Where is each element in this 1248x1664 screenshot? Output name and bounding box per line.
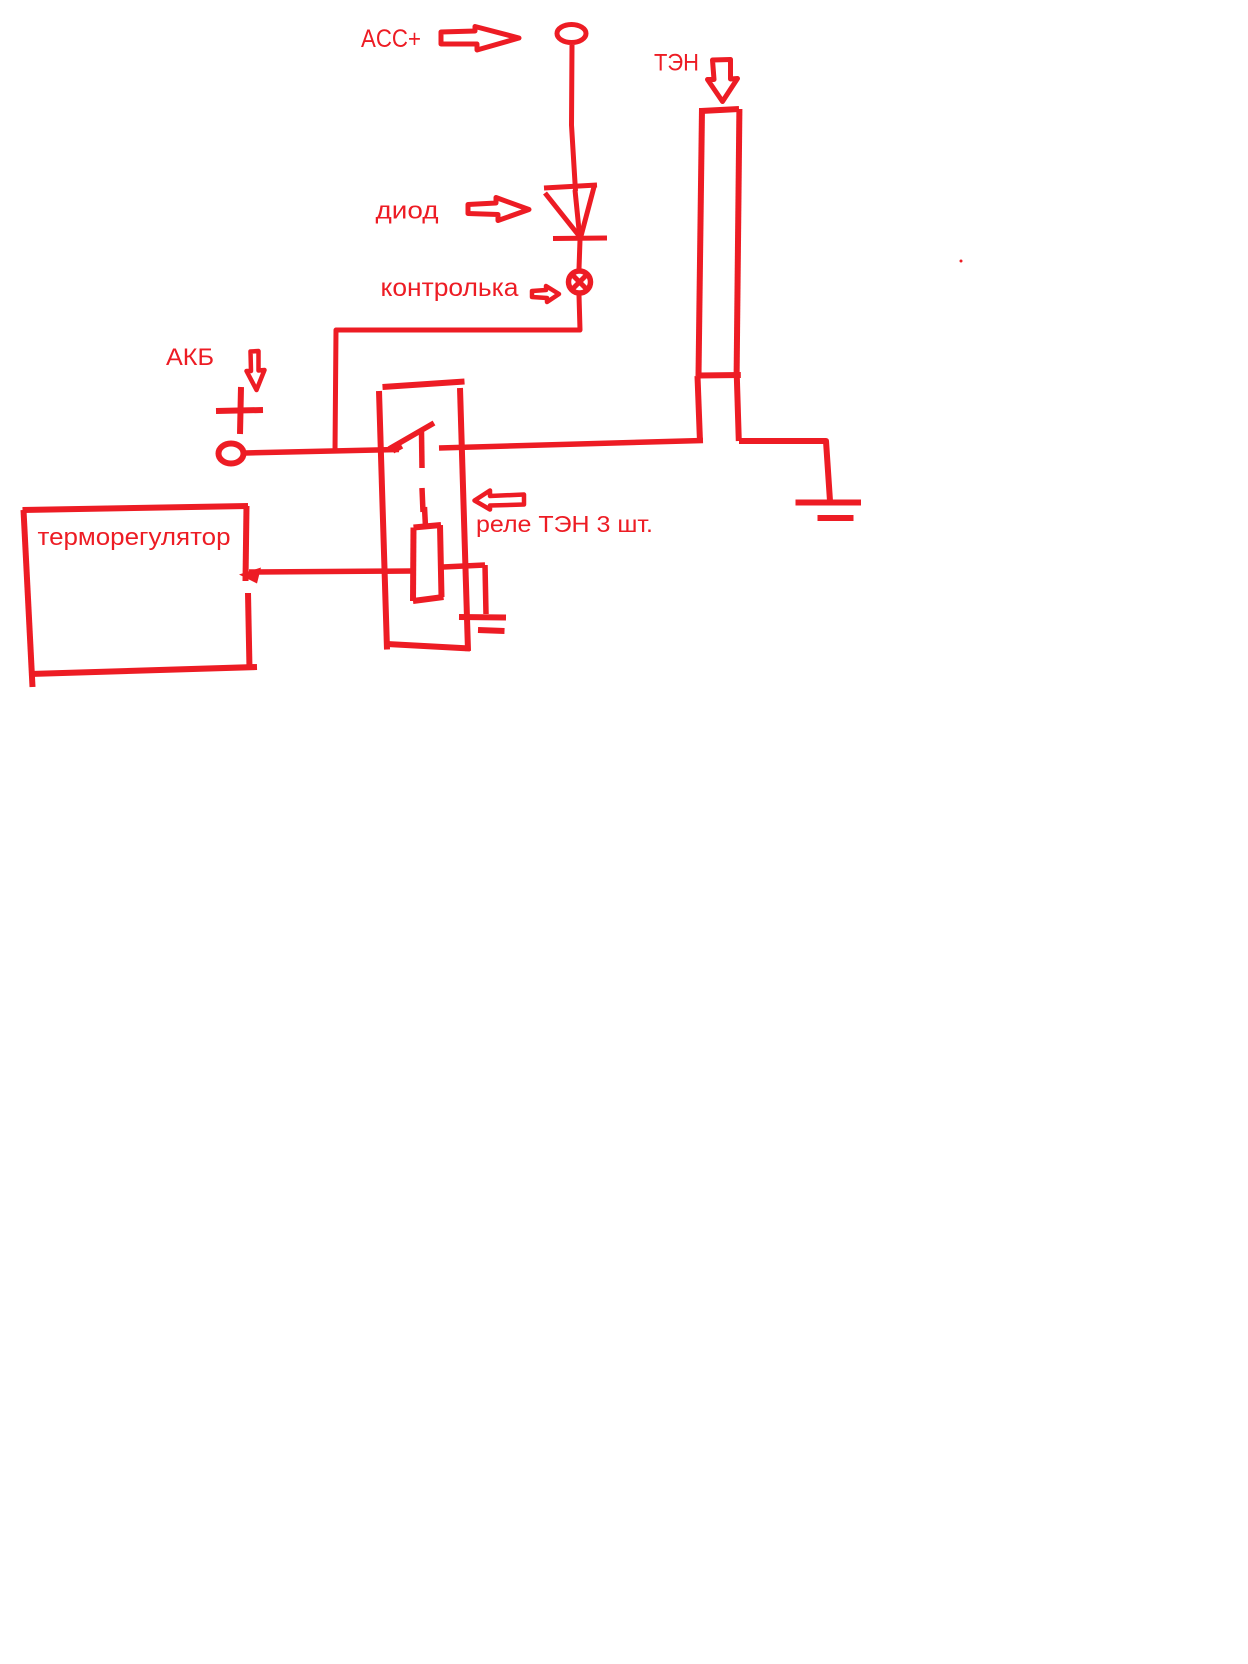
wire ACC+ terminal to diode — [572, 45, 576, 191]
thermostat box — [23, 506, 258, 687]
arrow to ACC+ terminal — [441, 27, 519, 51]
arrow to ТЭН — [708, 60, 738, 102]
svg-text:терморегулятор: терморегулятор — [38, 524, 231, 551]
arrow to relay — [475, 491, 525, 510]
heating element ТЭН — [698, 108, 741, 442]
lamp контролька — [569, 271, 591, 293]
arrow to diode — [468, 198, 529, 221]
diode D1 — [544, 185, 607, 240]
stray dot — [960, 260, 963, 263]
wire ТЭН to ground — [739, 441, 830, 501]
wire АКБ to relay switch — [245, 450, 399, 454]
arrow to АКБ — [247, 351, 265, 390]
wire coil to ground — [443, 565, 486, 614]
ground (relay) — [459, 617, 506, 631]
wire diode to lamp — [579, 240, 580, 269]
relay switch fixed contact — [419, 432, 425, 468]
relay actuator dashed link — [422, 488, 426, 527]
svg-text:контролька: контролька — [381, 274, 519, 302]
arrow to lamp — [532, 286, 559, 302]
relay box — [379, 382, 470, 652]
wire lamp to relay input — [335, 295, 580, 452]
terminal АКБ — [219, 444, 244, 464]
wire relay switch to ТЭН — [439, 441, 703, 449]
svg-text:АКБ: АКБ — [166, 344, 214, 371]
svg-text:реле ТЭН 3 шт.: реле ТЭН 3 шт. — [476, 511, 653, 537]
svg-text:ТЭН: ТЭН — [654, 50, 699, 77]
svg-text:ACC+: ACC+ — [361, 25, 421, 53]
wire coil to thermostat — [249, 571, 412, 572]
relay switch arm — [389, 423, 434, 449]
battery plus — [216, 387, 263, 434]
relay coil — [413, 525, 444, 601]
ground (ТЭН) — [796, 503, 862, 519]
svg-text:диод: диод — [376, 198, 439, 225]
terminal ACC+ — [557, 25, 586, 43]
arrowhead into thermostat — [239, 568, 261, 584]
